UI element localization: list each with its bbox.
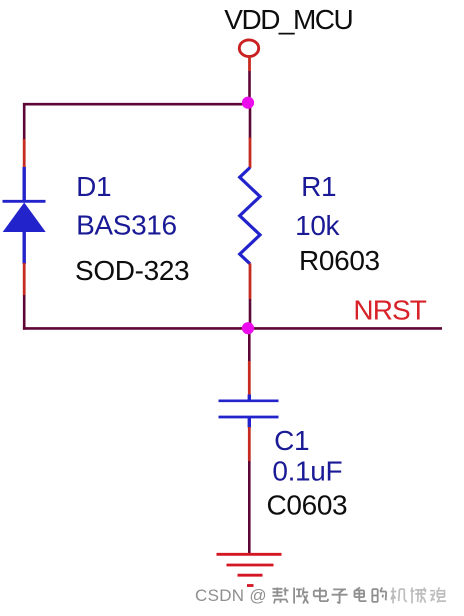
wire: resistor to junction B <box>249 299 252 328</box>
resistor R1 zigzag <box>240 168 260 264</box>
svg-text:C0603: C0603 <box>267 490 348 521</box>
port pin stub (red) <box>248 56 251 71</box>
power port circle <box>239 40 258 57</box>
svg-text:C1: C1 <box>274 425 309 456</box>
resistor R1 pin 2 (red) <box>249 264 252 300</box>
svg-text:D1: D1 <box>76 171 111 202</box>
resistor R1 pin 1 (red) <box>249 138 252 169</box>
capacitor C1 pin 1 (red) <box>248 361 251 395</box>
svg-text:CSDN @: CSDN @ <box>195 586 267 605</box>
svg-text:VDD_MCU: VDD_MCU <box>224 4 352 35</box>
svg-text:NRST: NRST <box>353 294 426 325</box>
wire: capacitor to ground <box>248 461 251 554</box>
svg-text:BAS316: BAS316 <box>76 209 177 240</box>
wire: NRST horizontal <box>23 327 442 330</box>
wire: top horizontal to diode branch <box>23 103 249 106</box>
wire: junction A down to resistor <box>249 106 252 139</box>
diode D1 pin 1 (red) <box>23 139 26 168</box>
junction B <box>242 322 254 334</box>
ground symbol <box>217 554 282 585</box>
svg-text:SOD-323: SOD-323 <box>75 255 189 286</box>
svg-text:10k: 10k <box>295 210 340 241</box>
junction A <box>242 97 254 109</box>
capacitor C1 pin 2 (red) <box>248 427 251 461</box>
wire: left vertical lower <box>23 295 26 330</box>
wire: port to junction A <box>248 71 251 103</box>
watermark CJK glyphs (vector approximation) <box>273 588 447 605</box>
svg-text:0.1uF: 0.1uF <box>272 455 342 486</box>
diode D1 pin 2 (red) <box>23 263 26 295</box>
wire: left vertical upper <box>23 103 26 140</box>
capacitor C1 symbol <box>219 395 279 428</box>
svg-text:R0603: R0603 <box>299 245 380 276</box>
wire: junction B down to capacitor <box>248 332 251 362</box>
svg-text:R1: R1 <box>301 171 336 202</box>
diode D1 symbol <box>3 167 46 264</box>
